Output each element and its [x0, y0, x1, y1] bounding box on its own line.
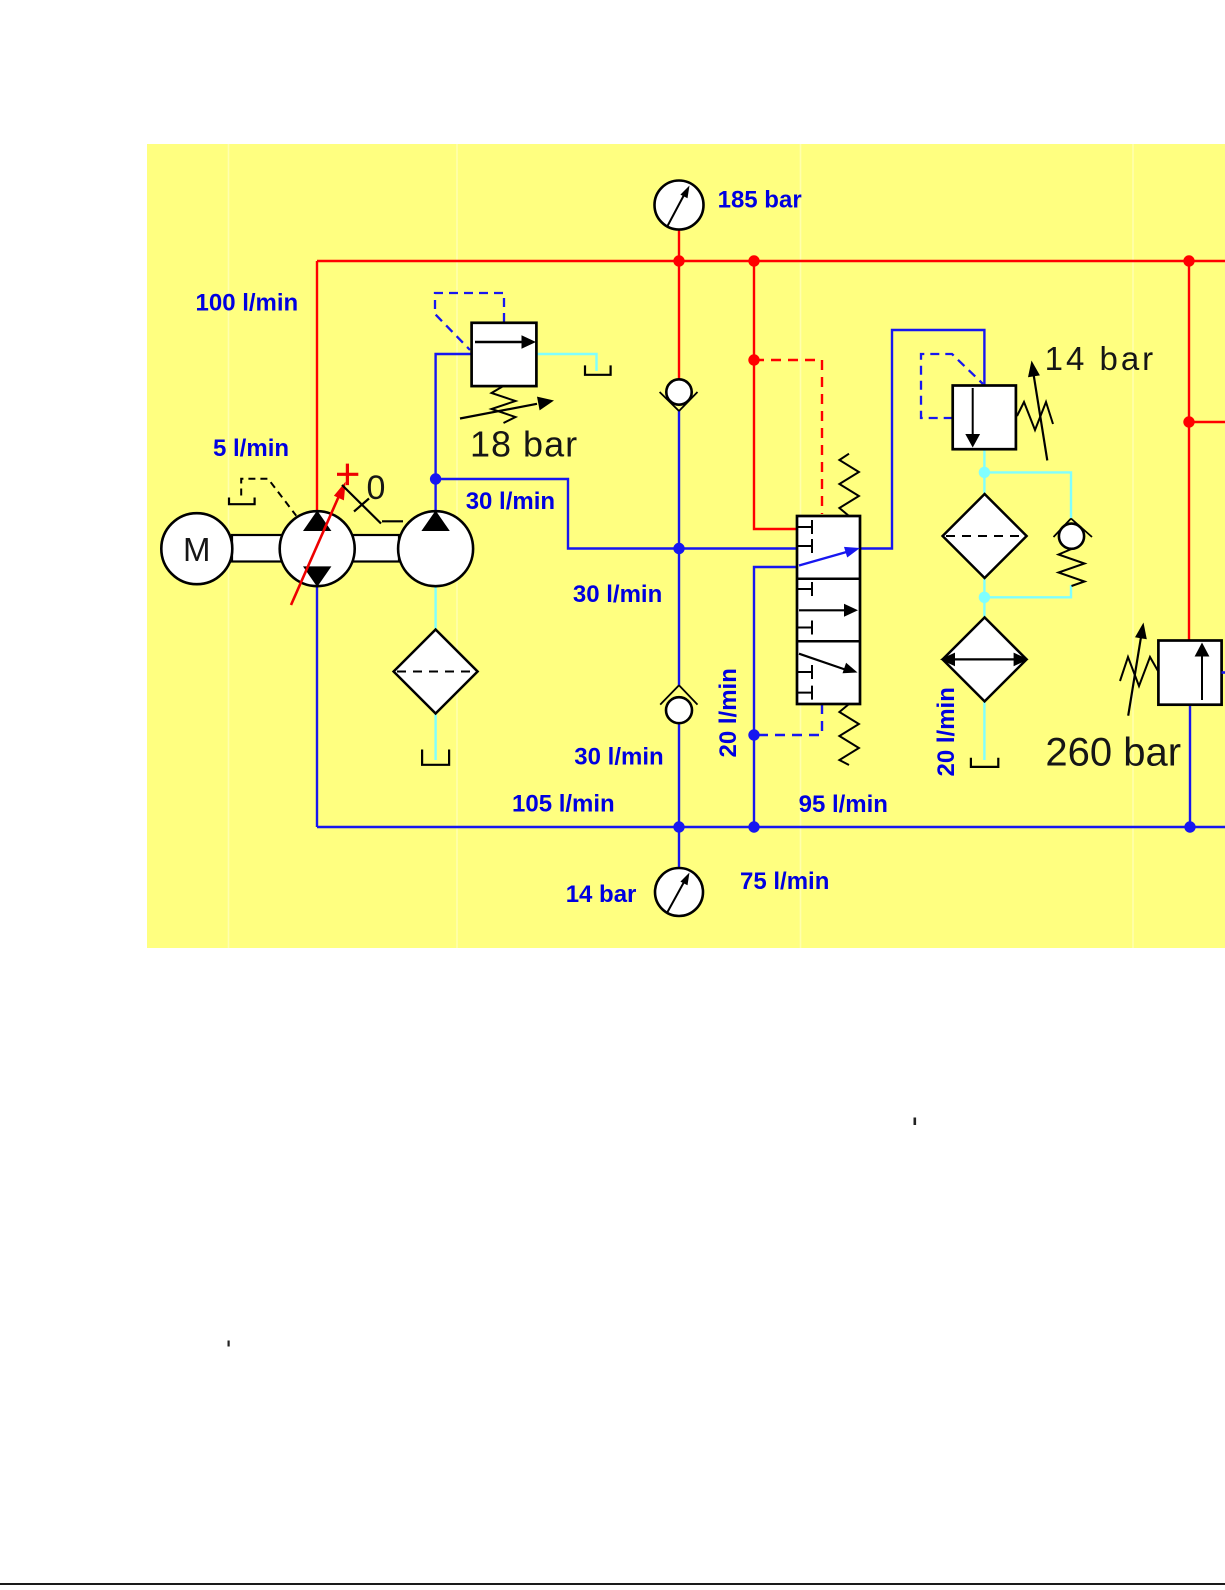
relief valve RV1 spring [492, 387, 516, 424]
wire red branch to directional valve DV1 P-port [754, 261, 797, 529]
pump P2 body [398, 511, 473, 586]
shaft pump1-pump2 [353, 535, 399, 562]
DV1 proportional flow arrow blue [799, 552, 847, 566]
node cyan bypass junction upper [979, 467, 990, 478]
DV1 bottom diagonal arrow [799, 654, 845, 670]
DV1 top spring [839, 454, 859, 516]
wire blue node to check valve CV2 [678, 549, 680, 686]
node blue pilot junction [748, 729, 759, 740]
faint table column lines [229, 144, 1134, 948]
directional valve DV1 body [797, 516, 860, 704]
tank symbol T2 [422, 750, 449, 765]
tank symbol case drain [229, 498, 255, 505]
svg-text:20 l/min: 20 l/min [715, 668, 742, 757]
wire blue below check valve CV1 down to node [678, 411, 680, 549]
wire red to check valve CV1 [678, 261, 680, 380]
PRV internal arrow head [965, 434, 980, 448]
svg-text:M: M [183, 531, 211, 568]
svg-text:20 l/min: 20 l/min [933, 687, 960, 776]
gauge G2 needle head [680, 873, 689, 886]
check valve CV3 spring [1059, 549, 1085, 586]
wire cyan bypass branch to check valve CV3 [984, 472, 1071, 518]
wire cyan PRV outlet to filter F2 [983, 449, 985, 495]
svg-text:0: 0 [367, 469, 386, 507]
yellow schematic panel [147, 144, 1225, 948]
filter F1 body [394, 630, 478, 714]
shaft motor-pump1 [232, 535, 282, 562]
wire blue dashed pilot PRV [921, 354, 983, 418]
wire red drop to relief valve RV2 260bar [1188, 261, 1190, 641]
DV1 blocked port e [798, 665, 812, 679]
pump P2 outlet triangle [421, 511, 449, 532]
wire blue tank manifold y=827 [317, 826, 1225, 828]
svg-text:260 bar: 260 bar [1045, 730, 1181, 774]
pump P1 variable arrow head [334, 482, 346, 501]
PRV adjust arrow head [1028, 361, 1040, 378]
wire red main pressure rail y=261 [317, 260, 1225, 262]
node red junction DV1 branch [748, 255, 759, 266]
svg-text:14 bar: 14 bar [1045, 340, 1157, 377]
cooler HE1 right arrow head [1014, 653, 1029, 667]
wire blue dashed pilot DV1 bottom [754, 704, 822, 735]
pump P1 lower triangle [303, 566, 331, 587]
PRV spring [1017, 402, 1053, 430]
DV1 mid arrow head [844, 604, 858, 617]
PRV adjust arrow [1034, 374, 1048, 460]
cooler HE1 left arrow head [940, 653, 955, 667]
wire red outlet to actuator right edge [1189, 421, 1225, 423]
check valve CV3 bypass seat [1054, 519, 1093, 538]
wire cyan relief RV1 to tank T1 [536, 354, 596, 371]
DV1 bottom arrow head [843, 663, 858, 673]
wire blue CV2 to tank manifold [678, 722, 680, 827]
wire cyan filter F1 to tank T2 [434, 714, 436, 761]
RV2 adjust arrow head [1135, 623, 1147, 640]
svg-text:30 l/min: 30 l/min [574, 744, 663, 771]
svg-text:105 l/min: 105 l/min [512, 791, 615, 818]
node blue manifold junction 2 [748, 821, 759, 832]
wire blue DV1 T-port return [754, 567, 797, 827]
svg-text:5 l/min: 5 l/min [213, 435, 289, 462]
PRV internal arrow [972, 388, 974, 436]
wire red dashed pilot to DV1 [754, 360, 822, 514]
wire cyan cooler HE1 to tank T3 [983, 701, 985, 760]
check valve CV2 ball [666, 697, 692, 723]
gauge G2 needle [668, 882, 685, 912]
DV1 blocked port c [798, 582, 812, 596]
stray mark 1 [914, 1118, 917, 1126]
bottom page rule [0, 1583, 1225, 1585]
wire blue 30l/min from node to DV1 [436, 479, 797, 549]
DV1 blocked port f [798, 686, 812, 700]
relief valve RV1 adjust arrow [460, 404, 537, 419]
gauge G1 needle head [680, 186, 689, 199]
pump P1 outlet triangle [303, 511, 331, 532]
check valve CV2 seat [660, 685, 697, 704]
node blue manifold junction 3 [1184, 821, 1195, 832]
cooler HE1 body [943, 617, 1027, 701]
stray mark 2 [228, 1341, 230, 1347]
svg-text:100 l/min: 100 l/min [196, 290, 299, 317]
svg-text:75 l/min: 75 l/min [740, 868, 829, 895]
relief valve RV1 18bar body [472, 323, 537, 386]
RV2 adjust arrow [1128, 637, 1141, 716]
motor M1 body [161, 513, 232, 584]
filter F2 body [943, 494, 1027, 578]
svg-text:14 bar: 14 bar [566, 881, 637, 908]
check valve CV1 seat [660, 392, 698, 411]
DV1 section divider 2 [797, 640, 860, 643]
gauge G1 185bar body [655, 181, 704, 230]
wire cyan filter F2 to cooler HE1 [983, 578, 985, 617]
wire blue pump P2 outlet up to relief valve RV1 [436, 354, 472, 512]
svg-text:95 l/min: 95 l/min [799, 791, 888, 818]
node blue pump outlet junction [430, 473, 441, 484]
wire cyan pump P2 suction to filter F1 [434, 586, 436, 630]
node blue manifold junction 1 [673, 821, 684, 832]
node blue center junction [673, 543, 684, 554]
check valve CV3 ball [1059, 524, 1084, 549]
DV1 blocked port a [798, 520, 812, 534]
pump P1 variable body [280, 511, 355, 586]
RV2 internal arrow [1201, 656, 1203, 700]
svg-text:18 bar: 18 bar [470, 424, 578, 465]
DV1 mid flow arrow [799, 609, 845, 611]
node red junction gauge/main [673, 255, 684, 266]
node red actuator branch [1183, 416, 1194, 427]
relief valve RV1 flow arrow [475, 341, 523, 343]
svg-text:185 bar: 185 bar [718, 187, 802, 214]
gauge G1 needle [668, 195, 685, 226]
node cyan bypass junction lower [979, 592, 990, 603]
pump P1 plus sign [337, 464, 358, 486]
filter F2 element dashed [946, 535, 1023, 537]
filter F1 element dashed [397, 671, 474, 673]
wire red drop to variable pump P1 outlet [316, 261, 318, 512]
svg-text:30 l/min: 30 l/min [466, 488, 555, 515]
node red pilot tap [748, 354, 759, 365]
wire blue stub gauge G2 [678, 827, 680, 868]
wire cyan bypass return [984, 585, 1071, 597]
relief valve RV1 arrow head [522, 335, 537, 348]
check valve CV1 ball [666, 379, 691, 404]
pressure reducing valve PRV body [953, 386, 1016, 450]
wire blue pump P1 suction drop [316, 587, 318, 827]
tank symbol T1 [585, 365, 611, 374]
tank symbol T3 [971, 758, 998, 767]
cooler HE1 arrow line [950, 658, 1019, 660]
DV1 section divider 1 [797, 577, 860, 580]
DV1 blocked port b [798, 539, 812, 553]
pump P1 case drain dashed [241, 479, 296, 516]
DV1 blocked port d [798, 621, 812, 635]
relief valve RV1 adjust arrow head [537, 397, 554, 411]
DV1 blue arrow head [844, 547, 860, 558]
node red junction right drop [1183, 255, 1194, 266]
RV2 spring [1120, 657, 1158, 686]
pump P1 zero-position lever [342, 485, 403, 524]
wire blue stub right edge [1222, 671, 1225, 674]
svg-text:30 l/min: 30 l/min [573, 581, 662, 608]
relief valve RV2 260bar body [1158, 641, 1221, 705]
wire red stub gauge G1 [678, 230, 680, 261]
gauge G2 14bar body [655, 868, 703, 916]
DV1 bottom spring [839, 704, 859, 765]
RV2 internal arrow head [1195, 643, 1210, 657]
wire blue DV1 A-port to pressure reducing valve PRV [860, 330, 984, 549]
pump P1 variable stroke arrow red [291, 496, 339, 605]
wire blue 260bar relief outlet to manifold [1189, 705, 1191, 827]
wire blue dashed pilot relief RV1 [435, 293, 504, 350]
